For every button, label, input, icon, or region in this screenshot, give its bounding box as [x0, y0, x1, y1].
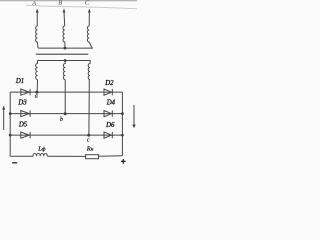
svg-text:D5: D5: [18, 122, 28, 129]
svg-text:c: c: [87, 137, 90, 143]
svg-text:D6: D6: [105, 122, 115, 129]
svg-text:b: b: [60, 117, 63, 123]
svg-text:D2: D2: [104, 80, 114, 87]
svg-text:D3: D3: [17, 100, 27, 107]
svg-text:D4: D4: [106, 100, 116, 107]
svg-text:B: B: [58, 0, 62, 7]
svg-text:D1: D1: [15, 78, 24, 85]
svg-text:C: C: [85, 0, 90, 7]
svg-text:Rн: Rн: [86, 146, 94, 153]
svg-text:A: A: [31, 0, 36, 7]
svg-text:Lф: Lф: [37, 145, 46, 152]
svg-text:a: a: [35, 94, 38, 100]
